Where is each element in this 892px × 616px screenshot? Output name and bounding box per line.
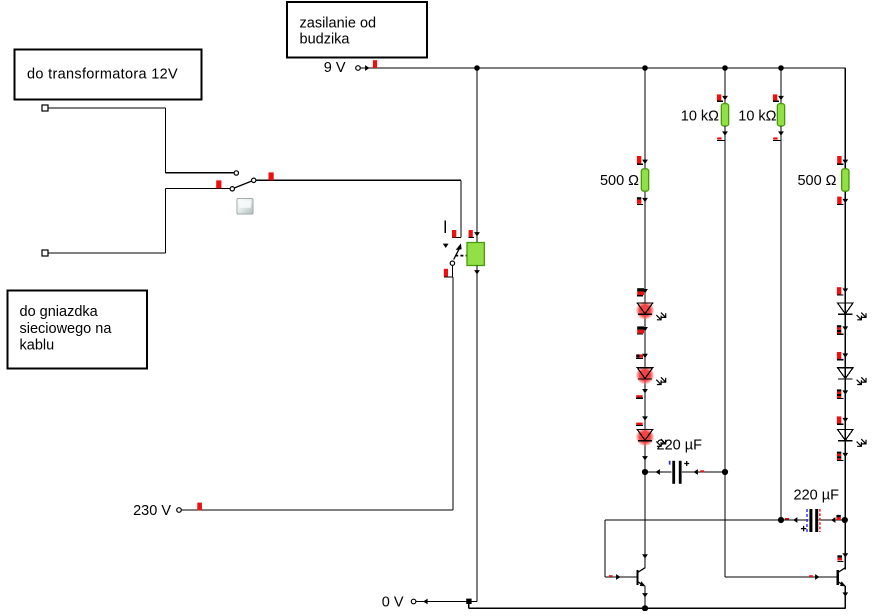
svg-text:sieciowego na: sieciowego na	[20, 321, 113, 337]
svg-text:0 V: 0 V	[382, 595, 404, 611]
svg-text:500 Ω: 500 Ω	[797, 173, 836, 189]
svg-text:220 µF: 220 µF	[657, 437, 703, 453]
svg-text:do transformatora 12V: do transformatora 12V	[27, 67, 178, 83]
svg-text:do gniazdka: do gniazdka	[20, 304, 99, 320]
svg-text:9 V: 9 V	[324, 60, 346, 76]
svg-text:10 kΩ: 10 kΩ	[738, 108, 776, 124]
svg-text:230 V: 230 V	[133, 503, 171, 519]
svg-text:kablu: kablu	[20, 338, 55, 354]
svg-text:budzika: budzika	[300, 32, 351, 48]
svg-text:500 Ω: 500 Ω	[600, 173, 639, 189]
svg-text:10 kΩ: 10 kΩ	[681, 108, 719, 124]
svg-text:220 µF: 220 µF	[794, 488, 840, 504]
svg-text:zasilanie od: zasilanie od	[300, 16, 377, 32]
